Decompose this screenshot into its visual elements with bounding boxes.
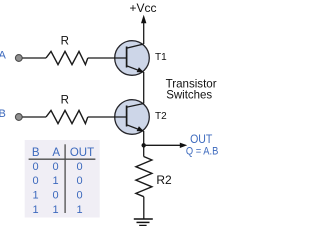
truth table <box>25 140 100 218</box>
svg-text:Q = A.B: Q = A.B <box>186 146 218 158</box>
wire junction to resistor R2 <box>143 145 145 156</box>
svg-text:0: 0 <box>76 161 82 173</box>
wire Vcc to T1 collector <box>143 23 145 45</box>
terminal B <box>15 114 22 121</box>
svg-text:1: 1 <box>33 204 39 216</box>
svg-text:0: 0 <box>76 189 82 201</box>
Vcc supply arrow <box>141 15 146 23</box>
wire junction to OUT arrow <box>144 144 181 146</box>
column separator line <box>64 144 66 213</box>
svg-text:1: 1 <box>33 189 39 201</box>
svg-text:0: 0 <box>53 189 59 201</box>
svg-text:0: 0 <box>76 175 82 187</box>
svg-text:T1: T1 <box>155 52 167 63</box>
transistor T1 <box>88 41 149 76</box>
svg-text:A: A <box>0 50 6 62</box>
resistor R (input B) <box>46 110 88 123</box>
T2 collector lead <box>127 104 144 108</box>
svg-text:R: R <box>61 36 69 48</box>
svg-text:0: 0 <box>33 161 39 173</box>
header separator line <box>29 158 96 160</box>
T1 collector lead <box>127 44 144 48</box>
svg-text:0: 0 <box>53 161 59 173</box>
T2 base bar <box>126 106 128 127</box>
terminal A <box>15 55 22 62</box>
svg-text:T2: T2 <box>155 111 167 122</box>
svg-text:0: 0 <box>33 175 39 187</box>
node output junction <box>142 143 146 147</box>
T1 base bar <box>126 47 128 68</box>
svg-text:B: B <box>32 147 40 159</box>
ground <box>134 219 153 226</box>
svg-text:OUT: OUT <box>70 147 94 159</box>
wire base lead T2 <box>88 116 127 118</box>
svg-text:R2: R2 <box>156 173 172 187</box>
svg-text:R: R <box>61 95 69 107</box>
svg-text:A: A <box>52 147 60 159</box>
svg-text:1: 1 <box>53 204 59 216</box>
wire R2 to ground <box>143 197 145 219</box>
svg-text:OUT: OUT <box>190 132 213 146</box>
svg-text:+Vcc: +Vcc <box>129 1 156 15</box>
transistor T2 <box>88 100 149 135</box>
svg-text:Switches: Switches <box>166 88 212 102</box>
svg-text:B: B <box>0 108 6 120</box>
wire T2 emitter to output junction <box>143 131 145 148</box>
wire B terminal to resistor R <box>22 116 46 118</box>
svg-text:1: 1 <box>76 204 82 216</box>
wire A terminal to resistor R <box>22 57 46 59</box>
T1 emitter lead with arrow <box>127 66 144 73</box>
T2 emitter lead with arrow <box>127 125 144 132</box>
wire T1 emitter to T2 collector <box>143 72 145 104</box>
resistor R2 <box>136 157 152 197</box>
resistor R (input A) <box>46 51 88 64</box>
wire base lead T1 <box>88 57 127 59</box>
svg-text:1: 1 <box>53 175 59 187</box>
